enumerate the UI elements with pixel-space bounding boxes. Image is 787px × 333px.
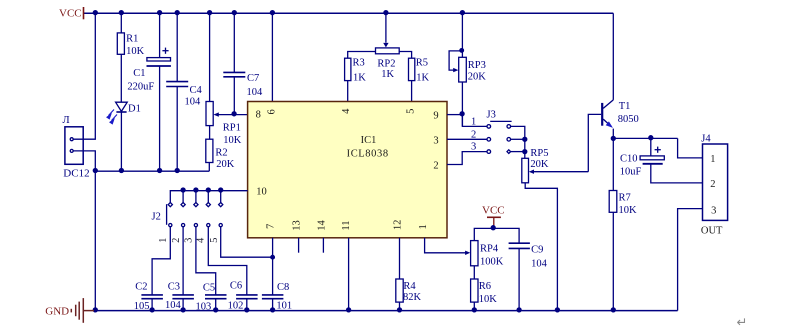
value 10K [126, 46, 145, 57]
junction dot [649, 136, 653, 140]
junction dot [181, 308, 185, 312]
pin number 12 (rotated) [392, 220, 403, 231]
pin number 6 (rotated) [267, 109, 278, 114]
pin number 11 (rotated) [341, 220, 352, 230]
capacitor C5 [205, 295, 227, 311]
label R4 [403, 281, 416, 292]
junction dot [232, 112, 236, 116]
svg-text:C1: C1 [133, 68, 145, 79]
svg-text:C4: C4 [190, 85, 203, 96]
value 20K [530, 159, 549, 170]
wire node to J3 row1 [462, 115, 487, 127]
svg-text:RP4: RP4 [480, 244, 499, 255]
capacitor C9 [509, 243, 530, 310]
capacitor C4 [166, 13, 188, 171]
connector J3 [487, 121, 512, 153]
junction dot [158, 169, 162, 173]
power symbol VCC (mid) [487, 217, 501, 228]
resistor R4 [396, 238, 403, 311]
label J4 [701, 133, 711, 144]
junction dot [270, 11, 274, 15]
wire VCC rail to DC12 pin1 [73, 13, 95, 139]
pin number 4 (rotated) [341, 108, 352, 114]
wire DC12 pin2 to ground bus [73, 151, 95, 311]
junction dot [271, 255, 275, 259]
potentiometer RP4 [471, 228, 519, 279]
junction dot [181, 188, 185, 192]
connector J2 bottom contacts (circles) [169, 224, 223, 227]
wire J2 pin4 to C6 [208, 227, 247, 295]
svg-text:1: 1 [710, 154, 715, 165]
value 104 [165, 300, 182, 311]
junction dot [523, 150, 527, 154]
junction dot [460, 11, 464, 15]
potentiometer RP3 [449, 13, 466, 126]
svg-text:C7: C7 [247, 73, 259, 84]
label R7 [619, 193, 631, 204]
value 10K [619, 205, 638, 216]
svg-text:R7: R7 [619, 193, 631, 204]
svg-text:2: 2 [710, 179, 715, 190]
svg-text:3: 3 [471, 142, 476, 153]
label C9 [531, 245, 543, 256]
wire J2 pin3 to C5 [196, 227, 216, 295]
svg-text:RP2: RP2 [377, 59, 395, 70]
J4 pin numbers [710, 154, 716, 217]
RP1 wiper arrow [213, 112, 247, 116]
svg-text:DC12: DC12 [63, 167, 89, 179]
capacitor C8 [262, 257, 284, 310]
svg-text:8: 8 [256, 110, 261, 121]
value 10K [479, 294, 498, 305]
svg-text:R6: R6 [479, 281, 491, 292]
capacitor C6 [236, 295, 258, 311]
connector J1 (DC12) [65, 127, 83, 165]
svg-text:C10: C10 [620, 153, 638, 164]
svg-text:1K: 1K [416, 72, 429, 83]
wire J3 right contacts to RP5 [511, 126, 525, 158]
pin number 14 (rotated) [317, 220, 328, 231]
label RP3 [468, 60, 486, 71]
junction dot [472, 308, 476, 312]
svg-text:OUT: OUT [701, 226, 723, 237]
svg-text:C6: C6 [230, 280, 242, 291]
value label DC12 [63, 167, 89, 179]
value 10K [223, 135, 242, 146]
value 104 [185, 97, 202, 108]
wire ground rail [93, 310, 678, 312]
wire IC pin14 stub [322, 238, 324, 253]
svg-text:C3: C3 [168, 282, 180, 293]
svg-text:1: 1 [158, 238, 169, 243]
label R5 [416, 57, 428, 68]
label OUT [701, 226, 723, 237]
svg-text:1: 1 [418, 224, 429, 229]
svg-text:R3: R3 [353, 57, 365, 68]
label C8 [277, 282, 289, 293]
svg-text:10uF: 10uF [620, 167, 642, 178]
net label GND [45, 305, 69, 317]
label C2 [135, 282, 147, 293]
svg-text:14: 14 [317, 220, 328, 231]
svg-text:3: 3 [433, 135, 438, 146]
capacitor C1 (220uF electrolytic) [147, 13, 171, 171]
junction dot [460, 112, 464, 116]
potentiometer RP2 [376, 13, 400, 54]
svg-text:20K: 20K [216, 159, 235, 170]
svg-text:GND: GND [45, 305, 69, 317]
pin number 3 [433, 135, 438, 146]
svg-text:104: 104 [247, 87, 264, 98]
svg-text:↵: ↵ [737, 315, 748, 329]
svg-text:104: 104 [185, 97, 202, 108]
svg-text:2: 2 [433, 161, 438, 172]
wire pin6 to VCC rail [271, 13, 273, 101]
wire J2 pin1 to C2 [152, 227, 170, 295]
label C7 [247, 73, 259, 84]
svg-text:C9: C9 [531, 245, 543, 256]
svg-text:13: 13 [292, 220, 303, 231]
value 10uF [620, 167, 642, 178]
value 101 [276, 301, 292, 312]
resistor R5 [399, 52, 415, 102]
LED D1 [116, 102, 128, 171]
svg-text:C8: C8 [277, 282, 289, 293]
RP2 wiper arrow [383, 43, 388, 48]
transistor T1 (8050 NPN) [602, 13, 613, 138]
wire IC pin2 to J3 row3 [447, 152, 487, 165]
svg-text:6: 6 [267, 109, 278, 114]
connector J2 top contacts (diamonds) [168, 191, 223, 207]
label D1 [128, 103, 141, 114]
svg-text:10K: 10K [126, 46, 145, 57]
label J1 [63, 115, 70, 126]
svg-text:82K: 82K [403, 292, 422, 303]
svg-text:10K: 10K [223, 135, 242, 146]
junction dot [460, 49, 464, 53]
potentiometer RP1 [206, 13, 213, 139]
wire VCC top rail [84, 12, 614, 14]
svg-text:10K: 10K [479, 294, 498, 305]
svg-text:D1: D1 [128, 103, 141, 114]
value 1K [353, 72, 366, 83]
junction dot [206, 188, 210, 192]
junction dot [491, 226, 495, 230]
pin number 8 [256, 110, 261, 121]
svg-text:J2: J2 [152, 212, 161, 223]
svg-text:4: 4 [341, 108, 352, 114]
value 1K [381, 69, 394, 80]
node VCC terminal bar [83, 7, 85, 19]
svg-text:20K: 20K [468, 72, 487, 83]
wire emitter node [613, 137, 677, 139]
svg-text:VCC: VCC [59, 8, 82, 20]
ground symbol [71, 298, 94, 323]
junction dot [93, 169, 97, 173]
value ICL8038 [347, 148, 389, 159]
connector J4 [703, 144, 728, 220]
svg-text:8050: 8050 [618, 114, 639, 125]
svg-text:4: 4 [196, 237, 207, 243]
svg-text:RP3: RP3 [468, 60, 486, 71]
junction dot [214, 308, 218, 312]
wire IC pin13 stub [298, 238, 300, 253]
net label VCC [482, 204, 505, 216]
pin number 2 [433, 161, 438, 172]
junction dot [119, 169, 123, 173]
label RP4 [480, 244, 499, 255]
svg-text:5: 5 [405, 109, 416, 114]
wire IC pin11 to ground [348, 238, 350, 311]
pin number 7 (rotated) [266, 224, 277, 229]
junction dot [555, 308, 559, 312]
junction dot [93, 308, 97, 312]
svg-text:J3: J3 [487, 110, 496, 121]
svg-text:VCC: VCC [482, 204, 505, 216]
junction dot [245, 308, 249, 312]
svg-text:104: 104 [165, 300, 182, 311]
svg-text:R1: R1 [126, 34, 138, 45]
IC U1 ICL8038 body [248, 102, 447, 238]
svg-text:3: 3 [711, 206, 716, 217]
label C3 [168, 282, 180, 293]
J3 pin labels [471, 116, 476, 152]
value 104 [531, 259, 548, 270]
svg-text:1K: 1K [353, 72, 366, 83]
junction dot [384, 11, 388, 15]
resistor R7 [609, 138, 617, 310]
pin number 13 (rotated) [292, 220, 303, 231]
label RP5 [530, 148, 548, 159]
svg-text:R4: R4 [403, 281, 416, 292]
capacitor C2 [141, 295, 163, 311]
RP4 wiper arrow [465, 251, 470, 255]
pin number 9 [433, 111, 438, 122]
wire to J4 pin1 [678, 138, 703, 158]
svg-text:20K: 20K [530, 159, 549, 170]
capacitor C7 [223, 13, 245, 114]
value 100K [480, 257, 504, 268]
pin number 1 (rotated) [418, 224, 429, 229]
J2 pin1 mark [166, 204, 168, 225]
wire IC pin1 to RP4 wiper [425, 238, 466, 253]
svg-text:RP5: RP5 [530, 148, 548, 159]
svg-text:12: 12 [392, 220, 403, 231]
junction dot [175, 169, 179, 173]
wire J2 pin5 to C8 [221, 227, 273, 258]
junction dot [219, 188, 223, 192]
value 1K [416, 72, 429, 83]
label R1 [126, 34, 138, 45]
svg-text:5: 5 [209, 238, 220, 243]
svg-text:9: 9 [433, 111, 438, 122]
label C1 [133, 68, 145, 79]
value 20K [216, 159, 235, 170]
resistor R6 [471, 279, 478, 311]
value 103 [196, 301, 212, 312]
paragraph return mark [737, 315, 748, 330]
net label VCC [59, 8, 82, 20]
junction dot [398, 308, 402, 312]
junction dot [93, 11, 97, 15]
value 220uF [127, 81, 154, 92]
svg-text:2: 2 [171, 238, 182, 243]
svg-text:Л: Л [63, 115, 70, 126]
svg-text:C5: C5 [203, 282, 215, 293]
wire IC pin3 to J3 row2 [447, 138, 487, 140]
junction dot [232, 11, 236, 15]
label R3 [353, 57, 365, 68]
label C10 [620, 153, 638, 164]
J2 pin labels 1-5 (rotated) [158, 237, 220, 243]
svg-text:10: 10 [256, 187, 267, 198]
LED D1 emission arrows [107, 110, 117, 124]
wire J4 pin3 to ground [678, 209, 703, 311]
value 20K [468, 72, 487, 83]
junction dot [119, 11, 123, 15]
label J3 [487, 110, 496, 121]
svg-text:C2: C2 [135, 282, 147, 293]
label IC1 [361, 135, 377, 146]
capacitor C10 (10uF electrolytic) [640, 138, 702, 183]
value 82K [403, 292, 422, 303]
pin number 10 [256, 187, 267, 198]
RP3 wiper arrow [453, 68, 458, 72]
svg-text:220uF: 220uF [127, 81, 154, 92]
resistor R1 [117, 13, 124, 102]
label RP1 [223, 123, 241, 134]
junction dot [517, 308, 521, 312]
value 104 [247, 87, 264, 98]
capacitor C3 [172, 295, 194, 311]
label RP2 [377, 59, 395, 70]
junction dot [347, 308, 351, 312]
label R6 [479, 281, 491, 292]
svg-text:7: 7 [266, 224, 277, 229]
svg-text:1: 1 [471, 116, 476, 127]
junction dot [158, 11, 162, 15]
junction dot [194, 188, 198, 192]
svg-text:IC1: IC1 [361, 135, 377, 146]
junction dot [175, 11, 179, 15]
svg-text:ICL8038: ICL8038 [347, 148, 389, 159]
junction dot [271, 308, 275, 312]
resistor R3 [345, 52, 376, 102]
RP5 wiper arrow [529, 170, 589, 174]
svg-text:11: 11 [341, 220, 352, 230]
wire IC pin10 to J2 [170, 191, 247, 203]
svg-text:R2: R2 [215, 147, 227, 158]
pin number 5 (rotated) [405, 109, 416, 114]
label J2 [152, 212, 161, 223]
resistor R2 [206, 139, 213, 171]
svg-text:3: 3 [183, 238, 194, 243]
svg-text:RP1: RP1 [223, 123, 241, 134]
junction dot [611, 308, 615, 312]
svg-text:10K: 10K [619, 205, 638, 216]
value 102 [228, 301, 244, 312]
value 8050 [618, 114, 639, 125]
label R2 [215, 147, 227, 158]
label T1 [619, 101, 631, 112]
potentiometer RP5 [522, 158, 558, 310]
junction dot [150, 308, 154, 312]
svg-text:T1: T1 [619, 101, 631, 112]
svg-text:104: 104 [531, 259, 548, 270]
junction dot [208, 11, 212, 15]
wire mid ground bus [95, 170, 209, 172]
junction dot [611, 136, 615, 140]
label C4 [190, 85, 203, 96]
wire IC pin7 stub [272, 238, 274, 257]
svg-text:1K: 1K [381, 69, 394, 80]
svg-text:R5: R5 [416, 57, 428, 68]
svg-text:100K: 100K [480, 257, 504, 268]
label C5 [203, 282, 215, 293]
value 105 [134, 301, 150, 312]
wire IC pin9 to RP3 node [447, 114, 462, 116]
label C6 [230, 280, 242, 291]
wire J2 pin2 to C3 [182, 227, 184, 295]
svg-text:J4: J4 [701, 133, 711, 144]
junction dot [523, 137, 527, 141]
wire RP5 wiper to T1 base [588, 114, 601, 171]
T1 emitter arrow [606, 121, 613, 128]
svg-text:2: 2 [471, 129, 476, 140]
